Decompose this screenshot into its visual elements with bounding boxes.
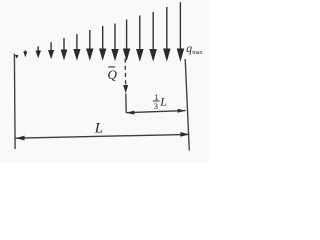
- load arrow 7: [102, 26, 104, 50]
- load tick 0 (zero end): [15, 55, 19, 59]
- load arrow 5: [76, 34, 78, 50]
- left extension line: [13, 54, 16, 150]
- load arrow 11: [152, 12, 154, 51]
- 1/3L dimension left arrowhead: [126, 111, 134, 115]
- svg-text:3: 3: [154, 101, 159, 111]
- L dimension line: [16, 134, 190, 138]
- svg-text:Q: Q: [108, 67, 118, 82]
- Q dashed action line: [124, 59, 126, 85]
- svg-text:max: max: [192, 50, 203, 56]
- L dimension left arrowhead: [16, 136, 25, 141]
- right extension line: [185, 59, 189, 151]
- 1/3L dimension right arrowhead: [178, 109, 186, 113]
- distributed load arrows: [15, 2, 184, 62]
- load arrow 1: [24, 50, 26, 53]
- svg-text:L: L: [94, 121, 103, 137]
- load arrow 2: [37, 46, 39, 52]
- load arrow 3: [50, 42, 52, 51]
- load arrow 8: [114, 24, 116, 51]
- load arrow 9: [126, 20, 128, 51]
- load arrow 4: [63, 38, 65, 51]
- 1/3L dimension line: [126, 111, 185, 113]
- svg-text:L: L: [159, 94, 167, 108]
- L dimension right arrowhead: [180, 132, 189, 137]
- load arrow 12: [166, 7, 168, 50]
- load arrow 13: [179, 2, 181, 50]
- load arrow 10: [139, 16, 141, 51]
- Q resultant arrowhead: [123, 85, 128, 93]
- Q extension line below resultant arrow: [125, 94, 127, 113]
- load arrow 6: [89, 30, 91, 50]
